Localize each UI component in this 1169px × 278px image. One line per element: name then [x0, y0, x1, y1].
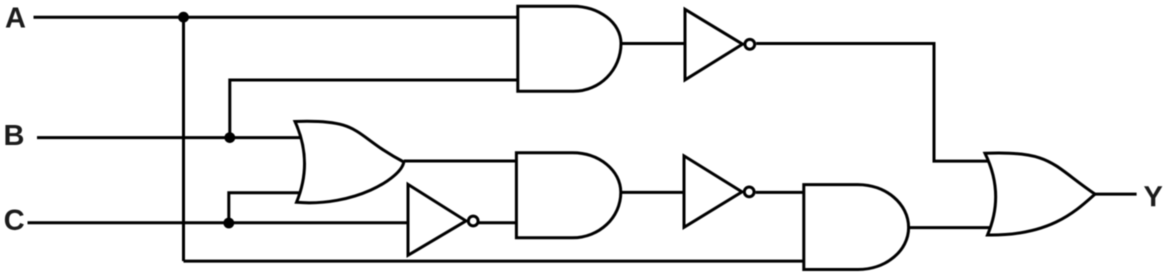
wire B input	[37, 136, 308, 139]
wire B branch up to AND1	[230, 80, 518, 138]
inverter NOT1 (after AND1)	[685, 9, 743, 80]
wire A branch vertical	[182, 17, 185, 261]
wire NOT1 output bend down to OR2	[756, 44, 1000, 162]
wire C branch up to OR1	[229, 193, 308, 223]
and-gate AND3 (bottom right)	[804, 185, 909, 270]
or-gate OR1 (inputs B, C)	[295, 121, 404, 203]
and-gate AND2	[516, 153, 620, 238]
wire AND1 output to NOT1	[621, 42, 685, 45]
wire AND3 output to OR2	[909, 226, 995, 229]
label input A	[6, 8, 25, 28]
wire NOT2 output to AND2	[478, 221, 516, 224]
wire OR1 output to AND2	[404, 160, 517, 163]
inverter NOT2 (on C into AND2)	[408, 184, 466, 255]
node B junction dot	[224, 132, 235, 143]
node C junction dot	[223, 218, 234, 229]
label input B	[5, 125, 23, 145]
wire OR2 output to Y	[1094, 193, 1137, 196]
label input C	[5, 210, 24, 231]
wire C input	[28, 221, 410, 224]
node A junction dot	[178, 12, 189, 23]
wire bottom run to AND3	[184, 260, 804, 263]
or-gate OR2 (final, output Y)	[985, 153, 1095, 235]
label output Y	[1144, 186, 1162, 206]
inverter NOT3 (after AND2)	[684, 156, 742, 227]
wire AND2 output to NOT3	[621, 191, 684, 194]
wire A input	[34, 16, 518, 19]
inverter NOT1 bubble	[745, 39, 755, 49]
and-gate AND1 (inputs A, B)	[518, 6, 621, 91]
wire NOT3 output to AND3	[756, 191, 804, 194]
inverter NOT2 bubble	[468, 216, 478, 226]
inverter NOT3 bubble	[744, 187, 754, 197]
